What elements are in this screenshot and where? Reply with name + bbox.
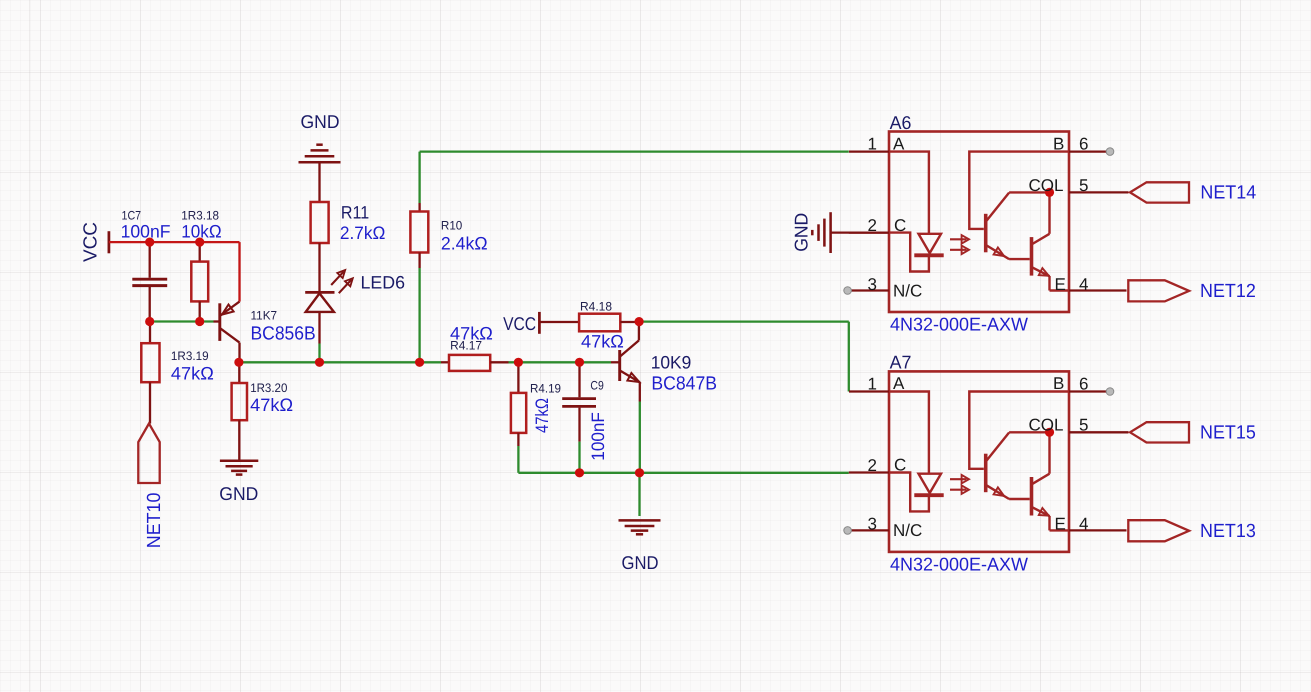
svg-text:NET12: NET12 [1200,281,1256,302]
svg-text:4: 4 [1079,275,1088,294]
svg-text:NET14: NET14 [1200,183,1256,204]
svg-text:C: C [894,456,906,475]
svg-text:6: 6 [1079,135,1088,154]
svg-text:COL: COL [1029,176,1064,195]
svg-text:N/C: N/C [893,521,922,540]
svg-text:5: 5 [1079,416,1088,435]
svg-text:R4.17: R4.17 [450,339,482,353]
svg-text:4N32-000E-AXW: 4N32-000E-AXW [890,314,1029,335]
svg-text:2: 2 [868,456,877,475]
svg-text:E: E [1055,275,1066,294]
svg-text:1: 1 [868,375,877,394]
svg-text:BC856B: BC856B [251,323,316,344]
svg-text:100nF: 100nF [588,412,608,461]
svg-text:B: B [1053,134,1064,153]
svg-text:R11: R11 [341,203,369,223]
svg-text:1R3.19: 1R3.19 [171,349,209,363]
svg-text:NET13: NET13 [1200,521,1256,542]
svg-text:47kΩ: 47kΩ [532,398,552,433]
svg-text:10K9: 10K9 [651,353,692,373]
svg-text:47kΩ: 47kΩ [250,395,293,415]
svg-text:3: 3 [868,275,877,294]
svg-text:1: 1 [868,135,877,154]
svg-text:E: E [1055,515,1066,534]
svg-text:R4.19: R4.19 [530,381,561,395]
svg-text:VCC: VCC [81,222,102,262]
svg-text:VCC: VCC [503,313,536,334]
svg-text:R10: R10 [441,218,463,232]
svg-text:GND: GND [622,552,659,573]
svg-text:A7: A7 [890,352,912,373]
svg-text:47kΩ: 47kΩ [581,332,624,352]
svg-text:1R3.18: 1R3.18 [181,209,219,223]
svg-text:A: A [893,374,905,393]
svg-text:2.4kΩ: 2.4kΩ [441,233,488,253]
svg-text:6: 6 [1079,375,1088,394]
svg-text:100nF: 100nF [121,222,171,242]
svg-text:LED6: LED6 [361,273,406,293]
svg-text:NET15: NET15 [1200,423,1256,444]
svg-text:4N32-000E-AXW: 4N32-000E-AXW [890,553,1029,574]
svg-text:B: B [1053,374,1064,393]
svg-text:R4.18: R4.18 [580,300,612,314]
svg-text:5: 5 [1079,176,1088,195]
svg-text:3: 3 [868,515,877,534]
svg-text:C9: C9 [590,378,604,392]
svg-text:NET10: NET10 [144,493,165,549]
svg-text:4: 4 [1079,515,1088,534]
svg-text:GND: GND [791,213,812,252]
svg-text:GND: GND [219,483,258,504]
svg-text:A6: A6 [890,112,912,133]
svg-text:N/C: N/C [893,281,922,300]
svg-text:2.7kΩ: 2.7kΩ [340,223,386,243]
svg-text:1R3.20: 1R3.20 [250,381,287,395]
svg-text:C: C [894,216,906,235]
svg-text:1C7: 1C7 [122,209,142,223]
svg-text:BC847B: BC847B [651,373,717,394]
svg-text:A: A [893,134,905,153]
svg-text:GND: GND [301,111,340,132]
svg-text:11K7: 11K7 [251,309,278,323]
svg-text:47kΩ: 47kΩ [171,364,214,384]
svg-text:COL: COL [1029,416,1064,435]
